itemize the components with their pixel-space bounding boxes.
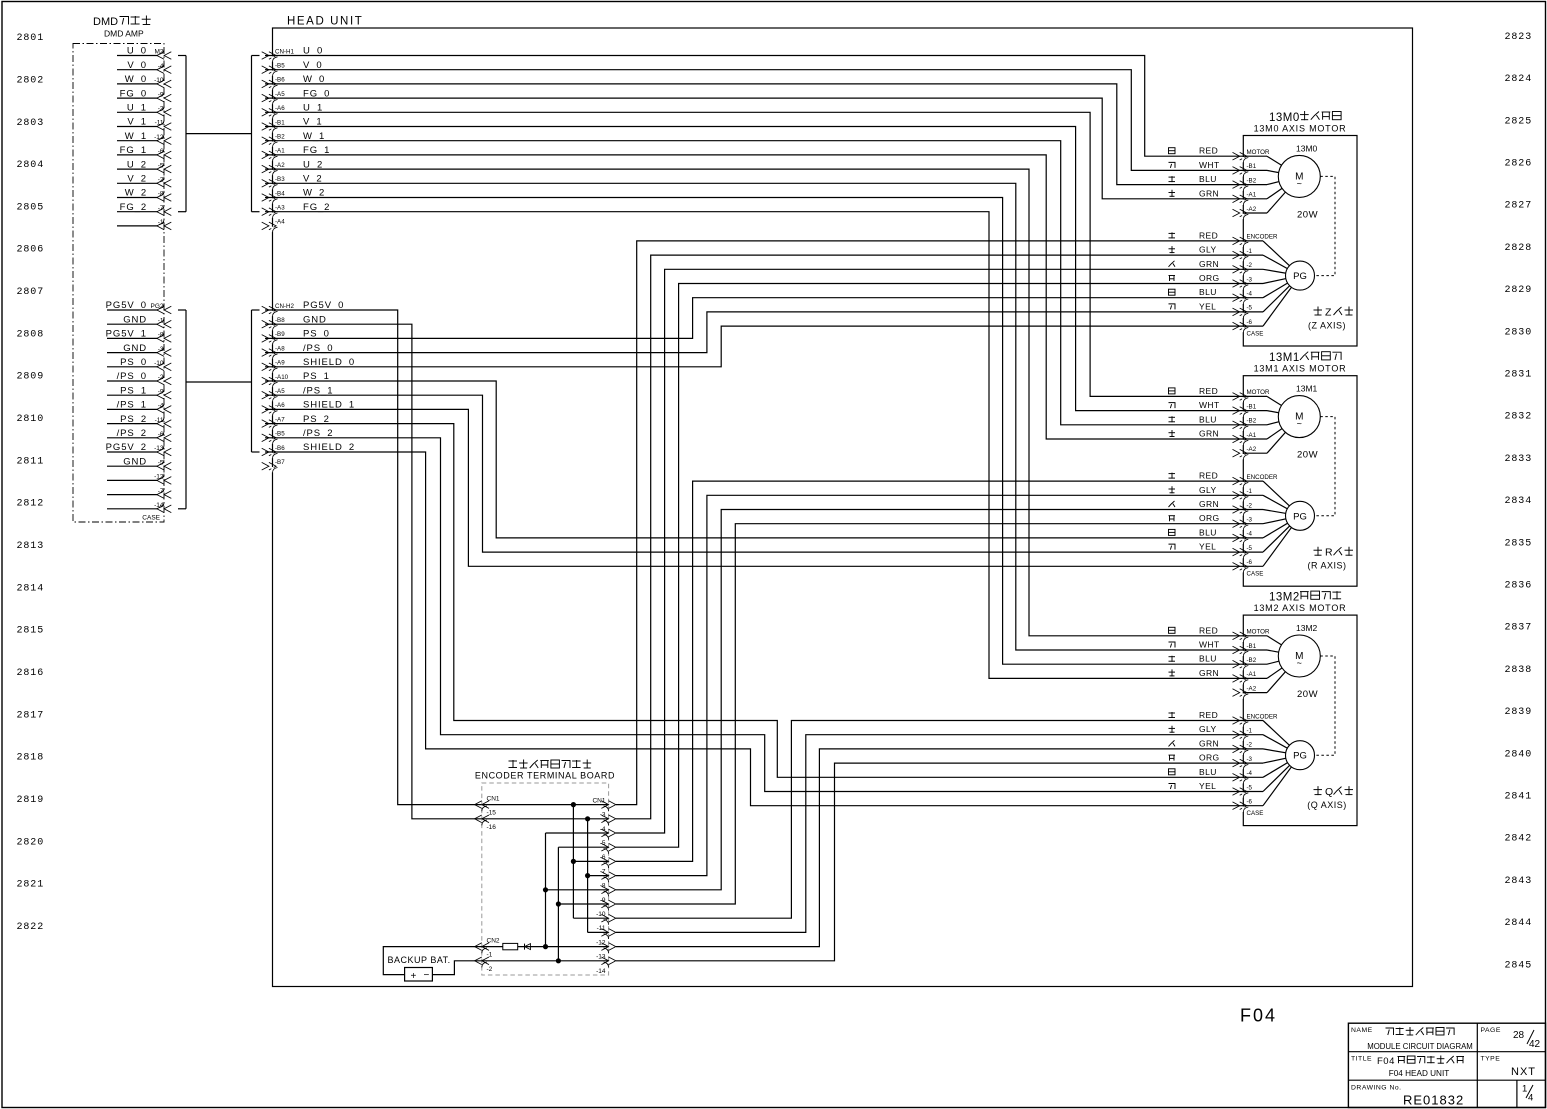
svg-text:TYPE: TYPE xyxy=(1481,1055,1501,1062)
svg-text:-B7: -B7 xyxy=(275,459,285,466)
svg-text:-B6: -B6 xyxy=(275,77,285,84)
svg-text:PS_0: PS_0 xyxy=(120,357,147,368)
svg-text:-4: -4 xyxy=(1247,291,1253,298)
svg-text:CASE: CASE xyxy=(1247,810,1264,817)
svg-text:GRN: GRN xyxy=(1199,499,1219,509)
svg-text:2803: 2803 xyxy=(17,118,45,129)
svg-text:F04 HEAD UNIT: F04 HEAD UNIT xyxy=(1389,1069,1450,1078)
svg-text:4: 4 xyxy=(1528,1093,1533,1104)
svg-text:R: R xyxy=(1325,547,1333,559)
svg-text:2841: 2841 xyxy=(1505,792,1533,803)
svg-text:2807: 2807 xyxy=(17,287,45,298)
svg-text:2834: 2834 xyxy=(1505,496,1533,507)
svg-text:F04: F04 xyxy=(1240,1006,1277,1026)
svg-text:W_0: W_0 xyxy=(125,74,147,85)
svg-text:-B1: -B1 xyxy=(1247,403,1257,410)
svg-text:-A2: -A2 xyxy=(1247,685,1257,692)
svg-text:WHT: WHT xyxy=(1199,160,1220,170)
svg-text:GRN: GRN xyxy=(1199,188,1219,198)
svg-text:-5: -5 xyxy=(1247,545,1253,552)
svg-text:-B3: -B3 xyxy=(275,176,285,183)
svg-text:-A9: -A9 xyxy=(275,360,285,367)
svg-text:BLU: BLU xyxy=(1199,767,1217,777)
svg-text:-A1: -A1 xyxy=(1247,671,1257,678)
svg-text:2833: 2833 xyxy=(1505,454,1533,465)
svg-text:GRN: GRN xyxy=(1199,738,1219,748)
svg-text:2828: 2828 xyxy=(1505,243,1533,254)
svg-text:-2: -2 xyxy=(1247,262,1253,269)
svg-text:2818: 2818 xyxy=(17,753,45,764)
svg-text:YEL: YEL xyxy=(1199,542,1216,552)
svg-text:-B8: -B8 xyxy=(275,317,285,324)
svg-text:-4: -4 xyxy=(1247,770,1253,777)
svg-text:20W: 20W xyxy=(1297,450,1318,461)
svg-text:-3: -3 xyxy=(1247,276,1253,283)
svg-text:-A1: -A1 xyxy=(1247,192,1257,199)
svg-text:-4: -4 xyxy=(600,826,606,833)
svg-text:2844: 2844 xyxy=(1505,918,1533,929)
svg-text:-B2: -B2 xyxy=(1247,177,1257,184)
svg-text:GLY: GLY xyxy=(1199,485,1217,495)
svg-text:BLU: BLU xyxy=(1199,654,1217,664)
svg-text:-B2: -B2 xyxy=(1247,657,1257,664)
svg-text:GRN: GRN xyxy=(1199,668,1219,678)
svg-text:2835: 2835 xyxy=(1505,538,1533,549)
svg-text:13M0: 13M0 xyxy=(1296,144,1318,154)
svg-text:RED: RED xyxy=(1199,386,1218,396)
svg-text:-A5: -A5 xyxy=(275,91,285,98)
svg-text:2802: 2802 xyxy=(17,75,45,86)
svg-text:PG5V_2: PG5V_2 xyxy=(106,442,147,453)
svg-text:2806: 2806 xyxy=(17,245,45,256)
svg-text:13M2 AXIS MOTOR: 13M2 AXIS MOTOR xyxy=(1254,603,1347,613)
svg-text:MOTOR: MOTOR xyxy=(1247,629,1270,636)
svg-text:-A1: -A1 xyxy=(275,148,285,155)
svg-text:U_0: U_0 xyxy=(127,46,147,57)
svg-text:-B2: -B2 xyxy=(275,134,285,141)
svg-text:-B5: -B5 xyxy=(275,63,285,70)
svg-text:-2: -2 xyxy=(1247,502,1253,509)
svg-text:DRAWING No.: DRAWING No. xyxy=(1351,1084,1402,1091)
svg-text:-6: -6 xyxy=(1247,799,1253,806)
svg-text:PAGE: PAGE xyxy=(1481,1027,1501,1034)
svg-text:2820: 2820 xyxy=(17,837,45,848)
svg-text:V_1: V_1 xyxy=(127,117,147,128)
svg-text:-B9: -B9 xyxy=(275,331,285,338)
svg-text:2830: 2830 xyxy=(1505,327,1533,338)
svg-text:-4: -4 xyxy=(1247,531,1253,538)
svg-text:BLU: BLU xyxy=(1199,287,1217,297)
svg-text:2825: 2825 xyxy=(1505,116,1533,127)
svg-text:20W: 20W xyxy=(1297,689,1318,700)
svg-text:2815: 2815 xyxy=(17,626,45,637)
svg-text:2814: 2814 xyxy=(17,583,45,594)
svg-text:ENCODER: ENCODER xyxy=(1247,234,1278,241)
svg-text:2819: 2819 xyxy=(17,795,45,806)
svg-text:2823: 2823 xyxy=(1505,32,1533,43)
svg-text:GRN: GRN xyxy=(1199,259,1219,269)
svg-text:2816: 2816 xyxy=(17,668,45,679)
svg-text:2843: 2843 xyxy=(1505,876,1533,887)
svg-text:PG: PG xyxy=(1293,511,1307,522)
svg-text:CASE: CASE xyxy=(1247,571,1264,578)
svg-text:PG2: PG2 xyxy=(150,303,163,310)
svg-text:2801: 2801 xyxy=(17,33,45,44)
svg-text:-3: -3 xyxy=(1247,756,1253,763)
svg-text:BLU: BLU xyxy=(1199,414,1217,424)
svg-text:2838: 2838 xyxy=(1505,665,1533,676)
svg-text:GRN: GRN xyxy=(1199,429,1219,439)
svg-text:-B1: -B1 xyxy=(1247,163,1257,170)
svg-text:13M0: 13M0 xyxy=(1269,112,1300,124)
svg-text:-A8: -A8 xyxy=(275,345,285,352)
svg-text:−: − xyxy=(424,970,430,981)
svg-text:2832: 2832 xyxy=(1505,412,1533,423)
svg-text:-9: -9 xyxy=(600,897,606,904)
svg-text:-B6: -B6 xyxy=(275,445,285,452)
svg-text:-A1: -A1 xyxy=(1247,432,1257,439)
svg-text:NAME: NAME xyxy=(1351,1027,1373,1034)
svg-text:2804: 2804 xyxy=(17,160,45,171)
svg-text:-3: -3 xyxy=(1247,517,1253,524)
svg-text:BACKUP BAT.: BACKUP BAT. xyxy=(388,955,451,965)
svg-text:CASE: CASE xyxy=(1247,331,1264,338)
svg-text:-2: -2 xyxy=(1247,742,1253,749)
svg-text:2842: 2842 xyxy=(1505,834,1533,845)
svg-text:PS_2: PS_2 xyxy=(120,414,147,425)
svg-text:MODULE CIRCUIT DIAGRAM: MODULE CIRCUIT DIAGRAM xyxy=(1367,1042,1473,1051)
svg-text:-A6: -A6 xyxy=(275,402,285,409)
svg-text:2837: 2837 xyxy=(1505,623,1533,634)
svg-text:-6: -6 xyxy=(1247,559,1253,566)
svg-text:TITLE: TITLE xyxy=(1351,1055,1372,1062)
svg-text:2845: 2845 xyxy=(1505,960,1533,971)
svg-text:2810: 2810 xyxy=(17,414,45,425)
svg-text:(R AXIS): (R AXIS) xyxy=(1307,561,1346,571)
svg-text:U_2: U_2 xyxy=(127,159,147,170)
svg-text:W_1: W_1 xyxy=(125,131,147,142)
svg-text:ENCODER: ENCODER xyxy=(1247,474,1278,481)
svg-text:-14: -14 xyxy=(596,968,606,975)
svg-text:-A10: -A10 xyxy=(275,374,289,381)
svg-text:2840: 2840 xyxy=(1505,749,1533,760)
svg-text:(Q AXIS): (Q AXIS) xyxy=(1307,800,1347,810)
svg-text:-5: -5 xyxy=(1247,784,1253,791)
svg-text:13M1: 13M1 xyxy=(1269,352,1300,364)
svg-text:-7: -7 xyxy=(600,868,606,875)
svg-text:FG_1: FG_1 xyxy=(120,145,147,156)
svg-text:-A5: -A5 xyxy=(275,388,285,395)
svg-text:-6: -6 xyxy=(600,854,606,861)
svg-text:NXT: NXT xyxy=(1511,1066,1536,1078)
svg-text:W_2: W_2 xyxy=(125,188,147,199)
svg-text:-1: -1 xyxy=(1247,248,1253,255)
svg-text:DMD AMP: DMD AMP xyxy=(104,29,144,39)
svg-text:-6: -6 xyxy=(1247,319,1253,326)
svg-text:+: + xyxy=(411,971,417,982)
svg-text:-B1: -B1 xyxy=(275,119,285,126)
svg-text:ENCODER TERMINAL BOARD: ENCODER TERMINAL BOARD xyxy=(475,771,615,781)
svg-text:-B4: -B4 xyxy=(275,190,285,197)
svg-text:CN-H1: CN-H1 xyxy=(275,48,294,55)
svg-text:FG_2: FG_2 xyxy=(120,202,147,213)
svg-text:2811: 2811 xyxy=(17,456,45,467)
svg-text:BLU: BLU xyxy=(1199,527,1217,537)
svg-text:BLU: BLU xyxy=(1199,174,1217,184)
svg-text:/PS_2: /PS_2 xyxy=(117,428,147,439)
svg-text:2839: 2839 xyxy=(1505,707,1533,718)
svg-text:2826: 2826 xyxy=(1505,159,1533,170)
svg-text:-A2: -A2 xyxy=(1247,206,1257,213)
svg-text:RED: RED xyxy=(1199,230,1218,240)
svg-text:PG5V_0: PG5V_0 xyxy=(106,300,147,311)
svg-text:GLY: GLY xyxy=(1199,245,1217,255)
svg-text:2812: 2812 xyxy=(17,499,45,510)
svg-text:ORG: ORG xyxy=(1199,273,1220,283)
svg-text:RED: RED xyxy=(1199,625,1218,635)
svg-text:-12: -12 xyxy=(596,939,606,946)
svg-text:2822: 2822 xyxy=(17,922,45,933)
svg-text:13M1 AXIS MOTOR: 13M1 AXIS MOTOR xyxy=(1254,364,1347,374)
svg-text:-A4: -A4 xyxy=(275,219,285,226)
svg-text:DMD: DMD xyxy=(93,16,118,28)
svg-text:1: 1 xyxy=(1522,1084,1527,1095)
svg-text:F04: F04 xyxy=(1377,1056,1395,1067)
svg-text:-1: -1 xyxy=(1247,728,1253,735)
svg-text:-A2: -A2 xyxy=(275,162,285,169)
svg-text:~: ~ xyxy=(1297,178,1302,188)
svg-text:CASE: CASE xyxy=(142,515,160,522)
svg-text:GND: GND xyxy=(123,314,147,325)
svg-text:2827: 2827 xyxy=(1505,201,1533,212)
svg-text:PS_1: PS_1 xyxy=(120,385,147,396)
svg-text:V_0: V_0 xyxy=(127,60,147,71)
svg-text:13M1: 13M1 xyxy=(1296,384,1318,394)
svg-text:~: ~ xyxy=(1297,658,1302,668)
svg-text:2821: 2821 xyxy=(17,880,45,891)
svg-text:MOTOR: MOTOR xyxy=(1247,389,1270,396)
svg-text:42: 42 xyxy=(1529,1039,1541,1050)
svg-text:FG_0: FG_0 xyxy=(120,88,147,99)
svg-text:-5: -5 xyxy=(600,840,606,847)
svg-text:PG: PG xyxy=(1293,271,1307,282)
svg-text:Z: Z xyxy=(1325,307,1332,319)
svg-text:RED: RED xyxy=(1199,146,1218,156)
svg-text:~: ~ xyxy=(1297,419,1302,429)
svg-text:RED: RED xyxy=(1199,710,1218,720)
svg-text:YEL: YEL xyxy=(1199,301,1216,311)
svg-text:U_1: U_1 xyxy=(127,103,147,114)
svg-text:HEAD UNIT: HEAD UNIT xyxy=(287,16,363,28)
svg-text:20W: 20W xyxy=(1297,210,1318,221)
svg-text:-16: -16 xyxy=(487,824,497,831)
svg-text:2824: 2824 xyxy=(1505,74,1533,85)
svg-text:/PS_0: /PS_0 xyxy=(117,371,147,382)
svg-text:28: 28 xyxy=(1513,1030,1525,1041)
svg-text:/PS_1: /PS_1 xyxy=(117,400,147,411)
svg-text:13M0 AXIS MOTOR: 13M0 AXIS MOTOR xyxy=(1254,124,1347,134)
svg-text:CN1: CN1 xyxy=(592,797,605,804)
svg-text:PG: PG xyxy=(1293,751,1307,762)
svg-text:CN-H2: CN-H2 xyxy=(275,303,294,310)
svg-text:2809: 2809 xyxy=(17,372,45,383)
svg-text:-13: -13 xyxy=(596,954,606,961)
svg-text:-1: -1 xyxy=(1247,488,1253,495)
svg-text:-A7: -A7 xyxy=(275,416,285,423)
svg-text:WHT: WHT xyxy=(1199,640,1220,650)
svg-text:GLY: GLY xyxy=(1199,724,1217,734)
svg-text:13M2: 13M2 xyxy=(1296,623,1318,633)
svg-text:-A3: -A3 xyxy=(275,205,285,212)
svg-text:-2: -2 xyxy=(487,966,493,973)
svg-text:GND: GND xyxy=(123,456,147,467)
svg-text:MOTOR: MOTOR xyxy=(1247,149,1270,156)
svg-text:2831: 2831 xyxy=(1505,370,1533,381)
svg-text:2808: 2808 xyxy=(17,329,45,340)
svg-text:-B1: -B1 xyxy=(1247,643,1257,650)
svg-text:2813: 2813 xyxy=(17,541,45,552)
svg-text:-3: -3 xyxy=(600,812,606,819)
svg-text:(Z AXIS): (Z AXIS) xyxy=(1308,321,1346,331)
svg-text:13M2: 13M2 xyxy=(1269,592,1300,604)
svg-text:WHT: WHT xyxy=(1199,400,1220,410)
svg-text:-B2: -B2 xyxy=(1247,418,1257,425)
svg-text:2836: 2836 xyxy=(1505,581,1533,592)
svg-text:RED: RED xyxy=(1199,471,1218,481)
svg-text:-11: -11 xyxy=(597,925,606,932)
svg-text:-A2: -A2 xyxy=(1247,446,1257,453)
svg-text:2829: 2829 xyxy=(1505,285,1533,296)
svg-text:-A6: -A6 xyxy=(275,105,285,112)
svg-text:Q: Q xyxy=(1325,786,1333,798)
svg-text:YEL: YEL xyxy=(1199,781,1216,791)
svg-text:2817: 2817 xyxy=(17,710,45,721)
svg-text:ORG: ORG xyxy=(1199,513,1220,523)
svg-text:-5: -5 xyxy=(1247,305,1253,312)
svg-text:ENCODER: ENCODER xyxy=(1247,713,1278,720)
svg-text:2805: 2805 xyxy=(17,202,45,213)
svg-text:-B5: -B5 xyxy=(275,431,285,438)
svg-text:V_2: V_2 xyxy=(127,174,147,185)
svg-text:-10: -10 xyxy=(596,911,606,918)
svg-text:RE01832: RE01832 xyxy=(1403,1093,1464,1108)
svg-text:ORG: ORG xyxy=(1199,753,1220,763)
svg-text:-8: -8 xyxy=(600,883,606,890)
svg-text:PG5V_1: PG5V_1 xyxy=(106,329,147,340)
svg-text:GND: GND xyxy=(123,343,147,354)
